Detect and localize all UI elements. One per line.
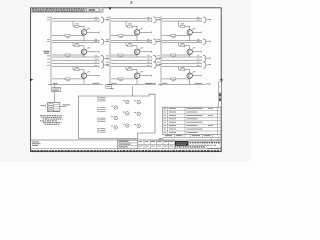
zone marker arrow right border <box>220 79 223 81</box>
driver transistor stage Q4 <box>126 21 137 30</box>
indicator lamp DS8 <box>111 116 117 120</box>
wire <box>47 41 99 44</box>
stage Q7 emitter/collector wiring <box>162 28 201 41</box>
indicator panel outline box <box>79 94 156 138</box>
terminal strip connector box TB2 <box>47 102 60 111</box>
wire <box>106 20 152 23</box>
relay circuit block 2 left bus bracket <box>109 16 111 86</box>
terminal group brace block 3 <box>203 62 211 69</box>
relay circuit block 1 left bus bracket <box>50 16 52 86</box>
text row under logo <box>175 146 205 147</box>
parts list row text <box>164 108 213 133</box>
terminal group brace block 2 <box>154 62 162 69</box>
wire <box>106 65 152 68</box>
transistor Q7 circle <box>187 30 192 35</box>
relay circuit block 3 left bus bracket <box>160 16 162 86</box>
panel legend group 1 <box>98 97 106 102</box>
wire <box>106 55 152 58</box>
wire <box>157 41 201 44</box>
weight cell marks <box>150 138 175 141</box>
parts list header row <box>163 134 221 137</box>
company logo block <box>175 141 189 146</box>
reference box on vertical leader <box>52 84 61 102</box>
wire <box>106 59 152 62</box>
driver transistor stage Q5 <box>126 43 137 49</box>
terminal group brace block 2 <box>154 39 162 45</box>
driver transistor stage Q2 <box>73 43 84 49</box>
indicator lamp DS4 <box>134 100 140 104</box>
indicator lamp DS5 <box>134 112 140 116</box>
driver transistor stage Q8 <box>179 43 190 49</box>
scan dust speck <box>131 1 133 4</box>
title block strip <box>31 139 222 141</box>
wire <box>47 39 99 42</box>
microfilm dash band bottom <box>31 150 220 152</box>
driver transistor stage Q6 <box>126 67 137 73</box>
stage Q6 emitter/collector wiring <box>111 71 152 84</box>
terminal group brace block 3 <box>203 39 211 45</box>
terminal group brace block 2 <box>154 17 162 23</box>
stage Q3 emitter/collector wiring <box>52 71 99 84</box>
wire <box>47 59 99 62</box>
sheet ruler marks <box>208 148 222 149</box>
wire <box>157 62 201 65</box>
wire <box>47 62 99 65</box>
transistor Q3 circle <box>81 73 86 78</box>
panel legend group 4 <box>98 128 106 133</box>
driver transistor stage Q3 <box>73 67 84 73</box>
wire <box>157 65 201 68</box>
zone marker arrow left border <box>30 78 33 81</box>
transistor Q1 circle <box>81 30 86 35</box>
wire <box>47 55 99 58</box>
reference box under block 2 <box>106 85 114 89</box>
wire <box>47 65 99 68</box>
revision ladder column right edge <box>219 82 222 107</box>
wire <box>157 39 201 42</box>
terminal group brace block 3 <box>203 17 211 23</box>
drawing number text <box>190 142 220 143</box>
panel legend group 2 <box>98 107 106 112</box>
drawing title text <box>190 144 217 147</box>
indicator lamp DS6 <box>134 124 140 128</box>
stage Q8 emitter/collector wiring <box>162 47 201 57</box>
wire <box>47 17 99 20</box>
terminal group brace block 3 <box>203 55 211 62</box>
indicator lamp DS7 <box>111 106 117 110</box>
wire <box>106 17 152 20</box>
sheet border frame <box>31 8 222 152</box>
stage Q5 emitter/collector wiring <box>111 47 152 57</box>
stage Q2 emitter/collector wiring <box>52 47 99 57</box>
title/revision header band top-left <box>31 8 103 13</box>
indicator lamp DS1 <box>123 100 129 104</box>
driver transistor stage Q9 <box>179 67 190 73</box>
wire <box>157 17 201 20</box>
driver transistor stage Q1 <box>73 21 84 30</box>
drawing number cells <box>189 138 221 141</box>
transistor Q9 circle <box>187 73 192 78</box>
strip left notes text <box>32 142 41 147</box>
label right of block 2 bottom wire <box>146 83 156 84</box>
stage Q9 emitter/collector wiring <box>162 71 201 84</box>
label under block 3 <box>206 83 211 84</box>
transistor Q8 circle <box>187 49 192 54</box>
terminal board label TB1 <box>44 51 50 54</box>
wire <box>157 20 201 23</box>
terminal group brace block 1 <box>101 39 109 45</box>
label TB2 brace <box>41 104 47 108</box>
transistor Q6 circle <box>134 73 139 78</box>
title strip middle divider <box>31 148 222 150</box>
leader wire block 2 to panel box <box>132 86 134 96</box>
terminal group brace block 1 <box>101 62 109 69</box>
terminal group brace block 1 <box>101 17 109 23</box>
wire <box>106 62 152 65</box>
wire <box>157 59 201 62</box>
terminal group brace block 2 <box>154 55 162 62</box>
transistor Q2 circle <box>81 49 86 54</box>
general notes text block <box>40 115 63 125</box>
indicator lamp DS9 <box>111 126 117 130</box>
stage Q1 emitter/collector wiring <box>52 28 99 41</box>
wire <box>47 20 99 23</box>
block 3 bottom common wire <box>158 83 206 84</box>
title block cells box <box>118 140 138 149</box>
wire <box>106 41 152 44</box>
zone marker arrow top border <box>109 7 112 10</box>
parts list table <box>163 107 221 134</box>
wire <box>106 39 152 42</box>
panel legend group 3 <box>98 118 106 123</box>
driver transistor stage Q7 <box>179 21 190 30</box>
wire <box>157 55 201 58</box>
stage Q4 emitter/collector wiring <box>111 28 152 41</box>
transistor Q5 circle <box>134 49 139 54</box>
indicator lamp DS2 <box>123 112 129 116</box>
terminal group brace block 1 <box>101 55 109 62</box>
block 2 bottom common wire <box>107 83 156 84</box>
indicator lamp DS3 <box>123 124 129 128</box>
transistor Q4 circle <box>134 30 139 35</box>
approval signature cells <box>138 140 175 149</box>
wire from connector box to right <box>60 104 70 106</box>
block 1 bottom common wire <box>48 83 103 84</box>
